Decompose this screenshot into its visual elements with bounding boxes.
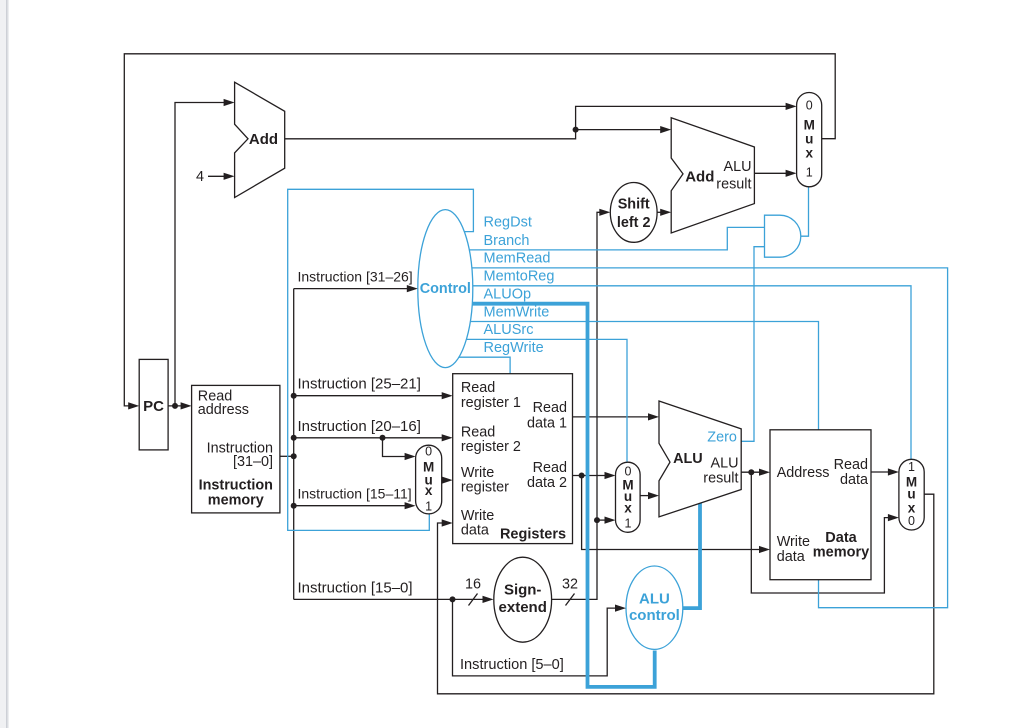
svg-text:Data: Data	[825, 530, 857, 546]
svg-text:Read: Read	[461, 380, 495, 396]
svg-text:Instruction [25–21]: Instruction [25–21]	[298, 376, 421, 393]
svg-text:ALU: ALU	[673, 451, 703, 467]
svg-text:0: 0	[425, 445, 432, 459]
svg-text:M: M	[804, 117, 815, 132]
svg-text:ALUSrc: ALUSrc	[484, 322, 534, 338]
svg-text:Instruction: Instruction	[199, 477, 273, 493]
svg-text:0: 0	[625, 464, 632, 478]
svg-text:Write: Write	[461, 508, 494, 524]
svg-text:extend: extend	[499, 599, 547, 616]
svg-text:MemtoReg: MemtoReg	[484, 269, 555, 285]
svg-text:Add: Add	[249, 131, 278, 148]
svg-text:u: u	[805, 132, 813, 147]
svg-text:data 1: data 1	[527, 415, 567, 431]
svg-text:Sign-: Sign-	[504, 581, 542, 598]
svg-text:Branch: Branch	[484, 233, 530, 249]
svg-text:Shift: Shift	[618, 197, 650, 213]
svg-text:Instruction [5–0]: Instruction [5–0]	[460, 657, 564, 673]
svg-text:data: data	[461, 523, 489, 539]
svg-text:PC: PC	[143, 398, 164, 415]
svg-text:1: 1	[625, 517, 632, 531]
svg-text:Control: Control	[420, 281, 471, 297]
svg-text:32: 32	[562, 576, 578, 592]
svg-text:data 2: data 2	[527, 475, 567, 491]
svg-text:ALU: ALU	[724, 159, 752, 175]
svg-text:Instruction [20–16]: Instruction [20–16]	[298, 418, 421, 435]
svg-text:Write: Write	[777, 534, 810, 550]
svg-text:x: x	[624, 501, 632, 516]
svg-text:Registers: Registers	[500, 527, 566, 543]
svg-text:Read: Read	[834, 457, 868, 473]
svg-text:ALU: ALU	[639, 590, 670, 607]
svg-text:memory: memory	[208, 493, 264, 509]
svg-text:ALUOp: ALUOp	[484, 286, 532, 302]
svg-text:Write: Write	[461, 465, 494, 481]
svg-text:Read: Read	[533, 400, 567, 416]
svg-text:Instruction [15–0]: Instruction [15–0]	[298, 579, 413, 596]
svg-text:x: x	[425, 483, 433, 498]
svg-text:ALU: ALU	[711, 455, 739, 471]
svg-text:address: address	[198, 402, 249, 418]
svg-text:data: data	[777, 549, 805, 565]
svg-text:Instruction [15–11]: Instruction [15–11]	[298, 486, 412, 502]
svg-text:left 2: left 2	[617, 215, 651, 231]
svg-text:RegDst: RegDst	[484, 214, 532, 230]
svg-text:register 1: register 1	[461, 395, 521, 411]
svg-text:Instruction [31–26]: Instruction [31–26]	[298, 269, 413, 285]
svg-text:x: x	[805, 146, 813, 161]
svg-text:1: 1	[806, 166, 813, 180]
svg-text:result: result	[703, 471, 738, 487]
svg-text:Address: Address	[777, 465, 830, 481]
svg-text:Read: Read	[461, 425, 495, 441]
svg-text:1: 1	[908, 460, 915, 474]
svg-text:Add: Add	[685, 169, 714, 186]
svg-text:MemRead: MemRead	[484, 250, 551, 266]
svg-text:register 2: register 2	[461, 439, 521, 455]
svg-text:control: control	[629, 607, 680, 624]
svg-text:Zero: Zero	[707, 430, 737, 446]
svg-text:[31–0]: [31–0]	[233, 454, 273, 470]
svg-text:register: register	[461, 480, 509, 496]
svg-text:0: 0	[806, 99, 813, 113]
svg-text:16: 16	[465, 576, 481, 592]
svg-text:1: 1	[425, 499, 432, 513]
svg-text:u: u	[907, 487, 915, 502]
svg-text:0: 0	[908, 514, 915, 528]
svg-text:MemWrite: MemWrite	[484, 304, 550, 320]
svg-text:Read: Read	[533, 460, 567, 476]
svg-text:RegWrite: RegWrite	[484, 340, 544, 356]
svg-text:memory: memory	[813, 545, 869, 561]
svg-text:result: result	[716, 176, 751, 192]
svg-text:data: data	[840, 472, 868, 488]
svg-text:4: 4	[196, 169, 204, 185]
